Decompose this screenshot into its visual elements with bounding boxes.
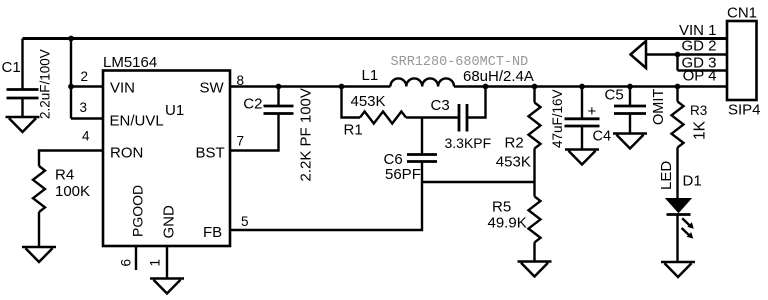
- svg-text:L1: L1: [362, 67, 379, 84]
- svg-text:1K: 1K: [692, 120, 709, 140]
- svg-text:R1: R1: [344, 122, 363, 139]
- svg-text:C2: C2: [243, 96, 262, 113]
- svg-text:5: 5: [241, 214, 249, 229]
- svg-text:EN/UVL: EN/UVL: [110, 113, 164, 130]
- inductor L1: [362, 67, 455, 87]
- wire GND stub: [166, 246, 168, 279]
- capacitor C2: [230, 87, 315, 182]
- svg-text:LED: LED: [658, 161, 675, 190]
- node GD2 junction: [675, 52, 681, 58]
- ground for C4: [565, 150, 599, 165]
- svg-text:68uH/2.4A: 68uH/2.4A: [463, 68, 534, 85]
- svg-text:BST: BST: [196, 145, 225, 162]
- svg-text:R4: R4: [55, 167, 74, 184]
- svg-text:2: 2: [81, 69, 89, 84]
- node C2/SW junction: [276, 84, 282, 90]
- svg-text:R2: R2: [505, 135, 524, 152]
- wire GD2: [646, 53, 727, 55]
- svg-text:100K: 100K: [55, 183, 90, 200]
- svg-text:2.2K PF 100V: 2.2K PF 100V: [298, 88, 315, 181]
- svg-text:56PF: 56PF: [385, 166, 421, 183]
- svg-text:4: 4: [82, 129, 90, 144]
- wire C6 to divider: [422, 181, 535, 183]
- svg-text:U1: U1: [165, 102, 184, 119]
- svg-text:3: 3: [80, 100, 88, 115]
- node C5/rail junction: [627, 84, 633, 90]
- power input arrow: [631, 41, 647, 68]
- svg-text:C5: C5: [605, 87, 624, 104]
- svg-text:C1: C1: [2, 59, 21, 76]
- svg-text:6: 6: [119, 259, 134, 267]
- svg-text:SW: SW: [200, 80, 225, 97]
- svg-text:LM5164: LM5164: [103, 54, 157, 71]
- svg-text:7: 7: [237, 134, 245, 149]
- ground for R4: [22, 247, 56, 262]
- capacitor C1: [2, 39, 53, 120]
- resistor R2: [496, 87, 541, 197]
- op-amp U1 LM5164 IC body: [103, 54, 230, 246]
- node C3/rail junction: [483, 84, 489, 90]
- svg-text:FB: FB: [203, 224, 222, 241]
- LED D1: [658, 161, 702, 262]
- wire top input rail: [23, 37, 728, 40]
- svg-text:VIN 1: VIN 1: [679, 22, 717, 39]
- svg-text:453K: 453K: [496, 154, 531, 171]
- ground for C5: [613, 134, 647, 149]
- ground for IC GND: [150, 279, 184, 294]
- wire GD2-GD3 link: [676, 55, 678, 71]
- resistor R1: [342, 87, 460, 139]
- capacitor C4: [550, 87, 611, 150]
- node C4/rail junction: [579, 84, 585, 90]
- node VIN rail junction: [68, 36, 74, 42]
- wire FB net: [230, 162, 422, 231]
- svg-text:GD 2: GD 2: [681, 38, 716, 55]
- capacitor C3: [431, 87, 492, 152]
- wire VIN branch vertical: [71, 39, 103, 119]
- svg-text:R5: R5: [492, 199, 511, 216]
- svg-text:PGOOD: PGOOD: [130, 185, 146, 237]
- wire RON pin: [39, 151, 103, 167]
- wire SW/output rail: [230, 85, 727, 87]
- svg-text:453K: 453K: [351, 93, 386, 110]
- svg-text:8: 8: [237, 73, 245, 88]
- svg-text:49.9K: 49.9K: [488, 215, 527, 232]
- capacitor C6: [384, 118, 438, 184]
- svg-text:2.2uF/100V: 2.2uF/100V: [38, 49, 53, 119]
- svg-text:OMIT: OMIT: [651, 89, 667, 125]
- resistor R4: [33, 166, 90, 247]
- svg-text:D1: D1: [683, 173, 702, 190]
- svg-text:CN1: CN1: [727, 5, 757, 22]
- svg-text:GND: GND: [161, 205, 178, 239]
- svg-text:C3: C3: [431, 97, 450, 114]
- svg-text:R3: R3: [690, 103, 707, 118]
- wire PGOOD stub: [135, 246, 137, 270]
- ground for C1: [6, 117, 40, 132]
- node VIN pin junction: [68, 84, 74, 90]
- svg-text:1: 1: [148, 259, 163, 267]
- svg-text:OP 4: OP 4: [683, 68, 717, 85]
- node L1/R1 junction: [339, 84, 345, 90]
- svg-text:RON: RON: [110, 145, 143, 162]
- svg-text:3.3KPF: 3.3KPF: [445, 135, 492, 151]
- svg-text:47uF/16V: 47uF/16V: [550, 89, 565, 148]
- svg-text:SIP4: SIP4: [728, 102, 761, 119]
- svg-text:C4: C4: [593, 129, 612, 145]
- ground for D1: [661, 262, 695, 277]
- svg-text:+: +: [588, 103, 597, 120]
- node R3/rail junction: [675, 84, 681, 90]
- ground for R5: [518, 262, 552, 277]
- svg-text:VIN: VIN: [110, 80, 135, 97]
- node R2/rail junction: [532, 84, 538, 90]
- resistor R3: [672, 87, 709, 199]
- capacitor C5: [605, 87, 668, 134]
- connector CN1: [679, 5, 761, 119]
- wire GD3: [678, 69, 728, 71]
- resistor R5: [488, 196, 541, 261]
